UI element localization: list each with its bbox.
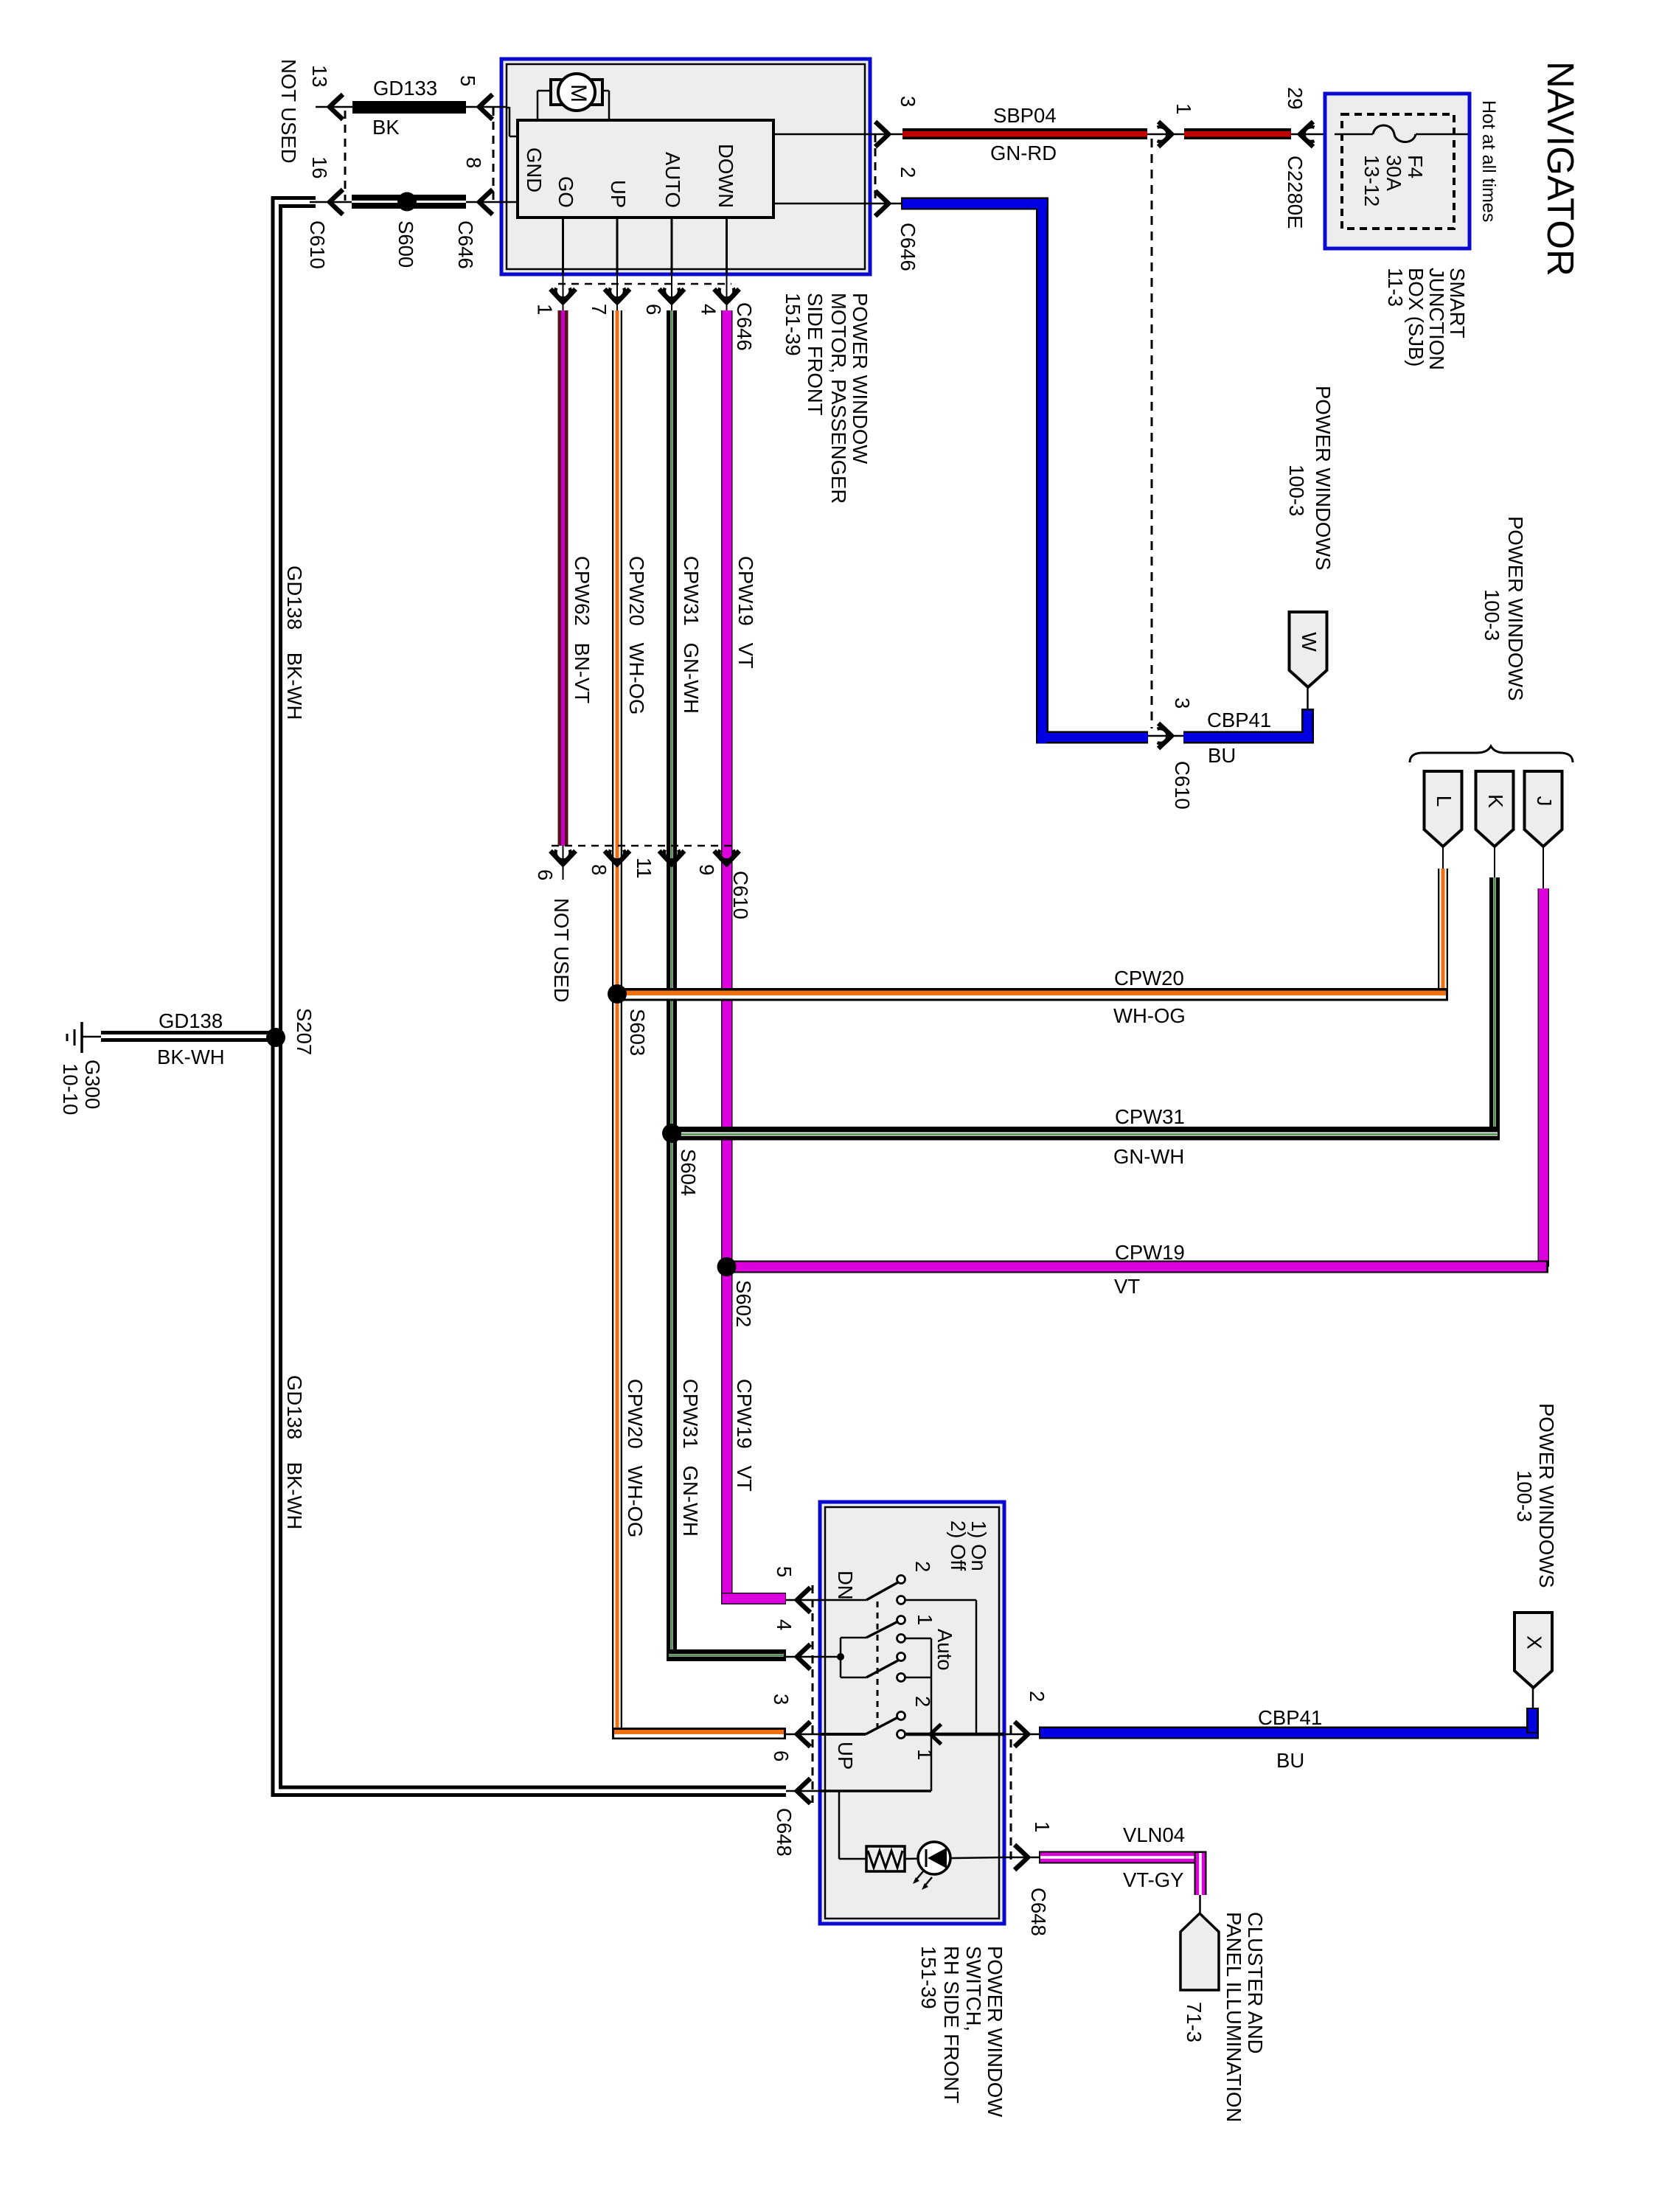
svg-text:2: 2 [897,167,919,178]
svg-text:PANEL ILLUMINATION: PANEL ILLUMINATION [1222,1912,1245,2122]
svg-text:CPW31 GN-WH: CPW31 GN-WH [680,556,703,714]
svg-text:Auto: Auto [933,1629,956,1671]
svg-text:CBP41: CBP41 [1258,1706,1322,1729]
svg-text:71-3: 71-3 [1183,2002,1206,2042]
svg-text:GN-WH: GN-WH [1113,1145,1184,1168]
svg-text:CPW20: CPW20 [1114,967,1184,990]
svg-text:VT-GY: VT-GY [1123,1868,1184,1891]
svg-text:GD138: GD138 [159,1009,223,1032]
svg-text:BK-WH: BK-WH [157,1046,225,1068]
svg-text:6: 6 [770,1750,793,1761]
svg-text:CPW31: CPW31 [1115,1105,1185,1128]
svg-text:151-39: 151-39 [782,293,804,356]
svg-text:2: 2 [911,1561,934,1572]
svg-text:13-12: 13-12 [1360,155,1383,206]
svg-text:CPW31 GN-WH: CPW31 GN-WH [679,1379,702,1537]
svg-text:GD138 BK-WH: GD138 BK-WH [283,1375,306,1529]
svg-text:C610: C610 [1171,761,1194,810]
svg-text:NAVIGATOR: NAVIGATOR [1540,61,1582,276]
svg-text:BU: BU [1276,1749,1304,1772]
svg-text:1: 1 [1031,1821,1054,1832]
svg-text:DN: DN [834,1571,857,1600]
svg-text:8: 8 [588,864,611,875]
svg-text:151-39: 151-39 [917,1946,940,2009]
svg-text:2: 2 [1026,1691,1048,1702]
svg-text:POWER WINDOW: POWER WINDOW [984,1946,1006,2117]
svg-text:S207: S207 [293,1008,316,1055]
svg-text:VT: VT [1114,1275,1140,1298]
svg-text:11-3: 11-3 [1384,268,1407,307]
svg-text:C2280E: C2280E [1284,156,1307,229]
svg-text:NOT USED: NOT USED [550,898,573,1003]
svg-text:29: 29 [1284,87,1307,110]
svg-text:C610: C610 [306,220,329,269]
svg-text:6: 6 [642,304,665,315]
svg-text:C610: C610 [729,871,752,919]
svg-text:5: 5 [456,75,479,86]
svg-text:3: 3 [897,96,919,107]
svg-text:5: 5 [773,1566,796,1577]
svg-text:K: K [1484,794,1507,808]
svg-text:WH-OG: WH-OG [1113,1004,1186,1027]
svg-text:F4: F4 [1404,155,1427,178]
svg-text:GO: GO [554,176,577,208]
svg-text:DOWN: DOWN [714,144,737,208]
svg-text:MOTOR, PASSENGER: MOTOR, PASSENGER [827,293,850,504]
svg-text:2: 2 [911,1696,934,1707]
svg-text:CPW19 VT: CPW19 VT [733,1379,756,1492]
svg-text:BOX (SJB): BOX (SJB) [1405,268,1427,366]
svg-text:C646: C646 [897,223,919,271]
svg-text:6: 6 [534,869,557,880]
svg-text:CPW19: CPW19 [1115,1241,1185,1264]
svg-text:4: 4 [773,1619,796,1630]
svg-text:POWER WINDOWS: POWER WINDOWS [1504,516,1527,701]
svg-text:M: M [566,84,591,102]
svg-text:C646: C646 [454,220,477,269]
svg-text:UP: UP [834,1742,857,1770]
svg-text:SWITCH,: SWITCH, [962,1946,985,2031]
svg-text:S602: S602 [732,1280,755,1327]
svg-text:G300: G300 [81,1060,104,1109]
svg-text:1: 1 [1172,103,1195,114]
svg-text:JUNCTION: JUNCTION [1425,268,1448,370]
svg-text:AUTO: AUTO [661,152,684,208]
svg-text:BK: BK [372,116,400,139]
svg-text:30A: 30A [1382,155,1405,192]
svg-text:C648: C648 [1027,1888,1050,1936]
svg-text:C648: C648 [773,1808,796,1857]
svg-text:CBP41: CBP41 [1207,709,1271,731]
svg-text:S600: S600 [394,220,417,268]
svg-text:13: 13 [308,65,331,88]
svg-text:CPW20 WH-OG: CPW20 WH-OG [624,1379,647,1537]
svg-text:BU: BU [1208,744,1236,767]
svg-text:CLUSTER AND: CLUSTER AND [1244,1912,1267,2054]
svg-text:1) On: 1) On [967,1520,990,1571]
svg-text:J: J [1533,796,1556,807]
svg-text:3: 3 [1171,698,1194,709]
svg-text:UP: UP [607,180,630,208]
svg-text:GN-RD: GN-RD [990,142,1057,164]
svg-text:10-10: 10-10 [59,1063,82,1115]
svg-text:X: X [1523,1635,1546,1649]
svg-text:POWER WINDOW: POWER WINDOW [849,293,872,464]
svg-text:2) Off: 2) Off [947,1520,970,1571]
svg-text:POWER WINDOWS: POWER WINDOWS [1535,1403,1558,1588]
svg-text:W: W [1298,632,1321,652]
svg-text:CPW20 WH-OG: CPW20 WH-OG [625,556,648,714]
svg-text:11: 11 [633,858,655,879]
svg-text:100-3: 100-3 [1513,1470,1536,1522]
svg-text:C646: C646 [733,302,756,351]
svg-text:1: 1 [914,1749,936,1760]
svg-text:7: 7 [588,304,611,315]
svg-text:NOT USED: NOT USED [277,59,300,164]
svg-text:GD133: GD133 [373,77,437,100]
svg-text:VLN04: VLN04 [1123,1823,1185,1846]
svg-text:1: 1 [914,1614,936,1625]
svg-text:CPW62 BN-VT: CPW62 BN-VT [571,556,594,703]
svg-text:3: 3 [770,1694,793,1705]
svg-text:Hot at all times: Hot at all times [1478,100,1499,222]
svg-text:S603: S603 [626,1009,649,1056]
svg-text:S604: S604 [677,1149,700,1196]
svg-text:100-3: 100-3 [1481,589,1503,641]
svg-text:SMART: SMART [1446,268,1469,338]
svg-text:RH SIDE FRONT: RH SIDE FRONT [940,1946,963,2104]
svg-text:4: 4 [698,304,720,315]
svg-text:SIDE FRONT: SIDE FRONT [804,293,827,416]
svg-text:16: 16 [308,156,331,179]
svg-text:GD138 BK-WH: GD138 BK-WH [283,566,306,720]
svg-text:L: L [1433,796,1455,807]
svg-text:100-3: 100-3 [1285,465,1308,516]
svg-text:CPW19 VT: CPW19 VT [734,556,757,669]
svg-text:SBP04: SBP04 [993,104,1057,127]
svg-text:8: 8 [462,157,485,168]
svg-text:POWER WINDOWS: POWER WINDOWS [1312,386,1335,571]
svg-text:1: 1 [534,304,557,315]
svg-text:GND: GND [523,147,546,192]
svg-text:9: 9 [695,864,718,875]
